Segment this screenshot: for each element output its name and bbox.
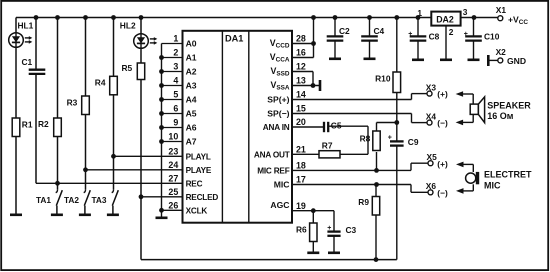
svg-text:TA2: TA2 — [64, 195, 79, 205]
svg-text:HL1: HL1 — [18, 21, 34, 31]
svg-text:R4: R4 — [95, 77, 106, 87]
svg-text:X5: X5 — [427, 152, 438, 162]
svg-text:ANA OUT: ANA OUT — [254, 151, 290, 160]
svg-text:C9: C9 — [408, 137, 419, 147]
svg-text:21: 21 — [296, 145, 306, 155]
svg-text:R9: R9 — [358, 197, 369, 207]
svg-text:9: 9 — [173, 118, 178, 128]
svg-text:X3: X3 — [426, 82, 437, 92]
svg-text:X6: X6 — [426, 181, 437, 191]
svg-text:(−): (−) — [437, 188, 448, 198]
svg-text:C3: C3 — [346, 225, 357, 235]
svg-text:C8: C8 — [429, 32, 440, 42]
svg-text:X4: X4 — [426, 111, 437, 121]
svg-text:1: 1 — [417, 8, 422, 18]
svg-text:+: + — [327, 225, 331, 232]
svg-text:12: 12 — [296, 62, 306, 72]
svg-text:(+): (+) — [437, 159, 448, 169]
svg-text:TA3: TA3 — [91, 195, 106, 205]
svg-text:XCLK: XCLK — [186, 207, 208, 216]
svg-text:PLAYL: PLAYL — [186, 153, 211, 162]
svg-text:ANA IN: ANA IN — [263, 123, 290, 132]
svg-text:1: 1 — [173, 34, 178, 44]
svg-text:AGC: AGC — [270, 200, 289, 210]
svg-text:R10: R10 — [375, 74, 391, 84]
svg-text:X1: X1 — [496, 5, 507, 15]
svg-text:27: 27 — [168, 174, 178, 184]
svg-text:18: 18 — [296, 161, 306, 171]
svg-text:5: 5 — [173, 90, 178, 100]
svg-text:GND: GND — [507, 56, 526, 66]
svg-text:+: + — [464, 31, 468, 38]
svg-text:C4: C4 — [374, 26, 385, 36]
svg-text:SP(−): SP(−) — [267, 109, 289, 119]
svg-text:HL2: HL2 — [120, 21, 136, 31]
svg-text:13: 13 — [296, 76, 306, 86]
svg-text:23: 23 — [168, 147, 178, 157]
svg-text:C5: C5 — [331, 120, 342, 130]
svg-text:A0: A0 — [186, 39, 197, 49]
svg-text:+: + — [388, 135, 392, 142]
svg-text:PLAYE: PLAYE — [186, 166, 212, 175]
svg-text:16: 16 — [296, 48, 306, 58]
svg-text:28: 28 — [296, 34, 306, 44]
svg-text:ELECTRET: ELECTRET — [484, 169, 532, 179]
svg-text:X2: X2 — [496, 47, 507, 57]
svg-text:6: 6 — [173, 104, 178, 114]
svg-text:A1: A1 — [186, 53, 197, 63]
svg-text:14: 14 — [296, 90, 306, 100]
svg-text:A6: A6 — [186, 123, 197, 133]
svg-text:DA2: DA2 — [436, 14, 454, 24]
svg-text:25: 25 — [168, 187, 178, 197]
svg-text:MIC REF: MIC REF — [257, 167, 289, 176]
svg-text:REC: REC — [186, 180, 203, 189]
svg-text:SPEAKER: SPEAKER — [487, 100, 531, 110]
svg-text:A3: A3 — [186, 81, 197, 91]
svg-text:15: 15 — [296, 104, 306, 114]
svg-text:R1: R1 — [22, 119, 33, 129]
svg-text:R5: R5 — [122, 63, 133, 73]
svg-text:MIC: MIC — [274, 180, 290, 190]
svg-text:A2: A2 — [186, 67, 197, 77]
svg-text:3: 3 — [173, 62, 178, 72]
svg-text:R8: R8 — [360, 134, 371, 144]
svg-text:A7: A7 — [186, 137, 197, 147]
svg-text:A5: A5 — [186, 109, 197, 119]
svg-text:16 Ом: 16 Ом — [487, 111, 514, 121]
svg-text:RECLED: RECLED — [186, 193, 219, 202]
svg-text:4: 4 — [173, 76, 178, 86]
svg-text:19: 19 — [296, 201, 306, 211]
svg-text:17: 17 — [296, 175, 306, 185]
svg-text:C10: C10 — [484, 32, 500, 42]
svg-text:(−): (−) — [437, 118, 448, 128]
svg-text:R6: R6 — [296, 225, 307, 235]
svg-text:R7: R7 — [322, 141, 333, 151]
svg-text:24: 24 — [168, 160, 178, 170]
svg-text:+: + — [408, 31, 412, 38]
svg-text:2: 2 — [173, 48, 178, 58]
svg-text:SP(+): SP(+) — [267, 95, 289, 105]
svg-text:3: 3 — [463, 7, 468, 17]
svg-text:C2: C2 — [339, 26, 350, 36]
svg-text:(+): (+) — [437, 89, 448, 99]
svg-text:C1: C1 — [22, 57, 33, 67]
svg-text:A4: A4 — [186, 95, 197, 105]
svg-text:TA1: TA1 — [36, 195, 51, 205]
svg-text:DA1: DA1 — [225, 34, 243, 44]
svg-text:R2: R2 — [38, 119, 49, 129]
svg-text:20: 20 — [296, 117, 306, 127]
svg-text:MIC: MIC — [484, 181, 501, 191]
svg-text:2: 2 — [449, 27, 454, 37]
svg-text:R3: R3 — [67, 97, 78, 107]
svg-text:26: 26 — [168, 201, 178, 211]
svg-text:10: 10 — [168, 132, 178, 142]
